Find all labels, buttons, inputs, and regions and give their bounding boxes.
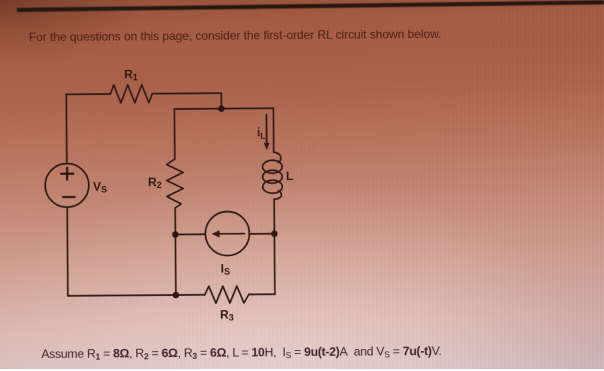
svg-text:IS: IS: [221, 262, 230, 277]
svg-text:R2: R2: [148, 175, 162, 190]
wire left branch lower: [66, 207, 69, 296]
wire bottom left: [68, 295, 205, 296]
svg-text:iL: iL: [257, 127, 266, 141]
wire R2 branch upper: [173, 109, 175, 159]
resistor R3: [205, 286, 249, 303]
node Is-right junction: [271, 230, 278, 237]
svg-text:R3: R3: [220, 308, 234, 323]
wire bottom right: [249, 293, 275, 295]
wire R2 branch lower: [174, 208, 177, 295]
svg-text:VS: VS: [93, 180, 107, 195]
node Is-left junction: [172, 231, 179, 238]
svg-text:L: L: [286, 169, 293, 183]
resistor R1: [110, 85, 152, 103]
wire top-left to R1: [66, 93, 110, 95]
wire inner top: [174, 107, 273, 110]
bottom assumption text: [41, 344, 441, 362]
wire left branch upper: [65, 94, 68, 163]
node bottom junction: [173, 292, 180, 299]
wire R1 to top jog: [152, 93, 221, 109]
title text: [29, 26, 442, 43]
node top junction: [218, 105, 225, 112]
svg-text:R1: R1: [124, 67, 138, 82]
voltage source Vs: [45, 163, 89, 207]
wire Is left: [175, 233, 205, 235]
wire Is right: [249, 233, 274, 235]
current label arrow iL: [265, 115, 267, 144]
wire right branch lower: [273, 199, 276, 294]
inductor L: [274, 152, 281, 163]
current source Is: [205, 211, 249, 255]
resistor R2: [167, 159, 184, 208]
wire right branch upper: [272, 108, 274, 152]
